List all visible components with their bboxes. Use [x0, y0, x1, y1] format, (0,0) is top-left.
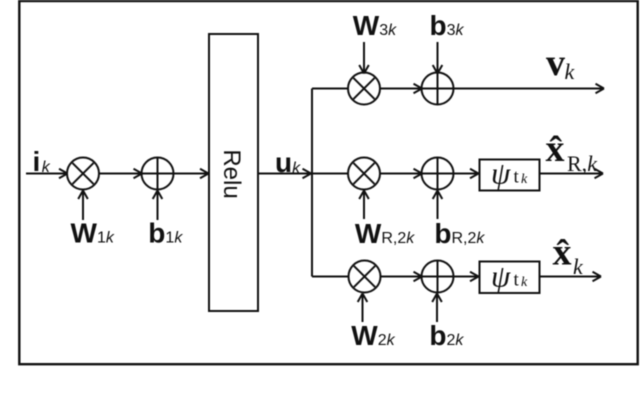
- svg-text:v: v: [546, 42, 565, 84]
- svg-text:t: t: [514, 167, 520, 188]
- svg-text:k: k: [565, 59, 576, 84]
- svg-text:ψ: ψ: [491, 156, 511, 191]
- svg-text:R,k: R,k: [567, 151, 598, 176]
- svg-text:Relu: Relu: [218, 149, 245, 198]
- svg-text:x̂: x̂: [546, 128, 565, 170]
- svg-text:x̂: x̂: [553, 232, 572, 274]
- svg-text:t: t: [514, 270, 520, 291]
- svg-text:k: k: [573, 254, 584, 279]
- svg-text:ψ: ψ: [491, 259, 511, 294]
- svg-text:k: k: [521, 275, 528, 290]
- svg-text:k: k: [521, 172, 528, 187]
